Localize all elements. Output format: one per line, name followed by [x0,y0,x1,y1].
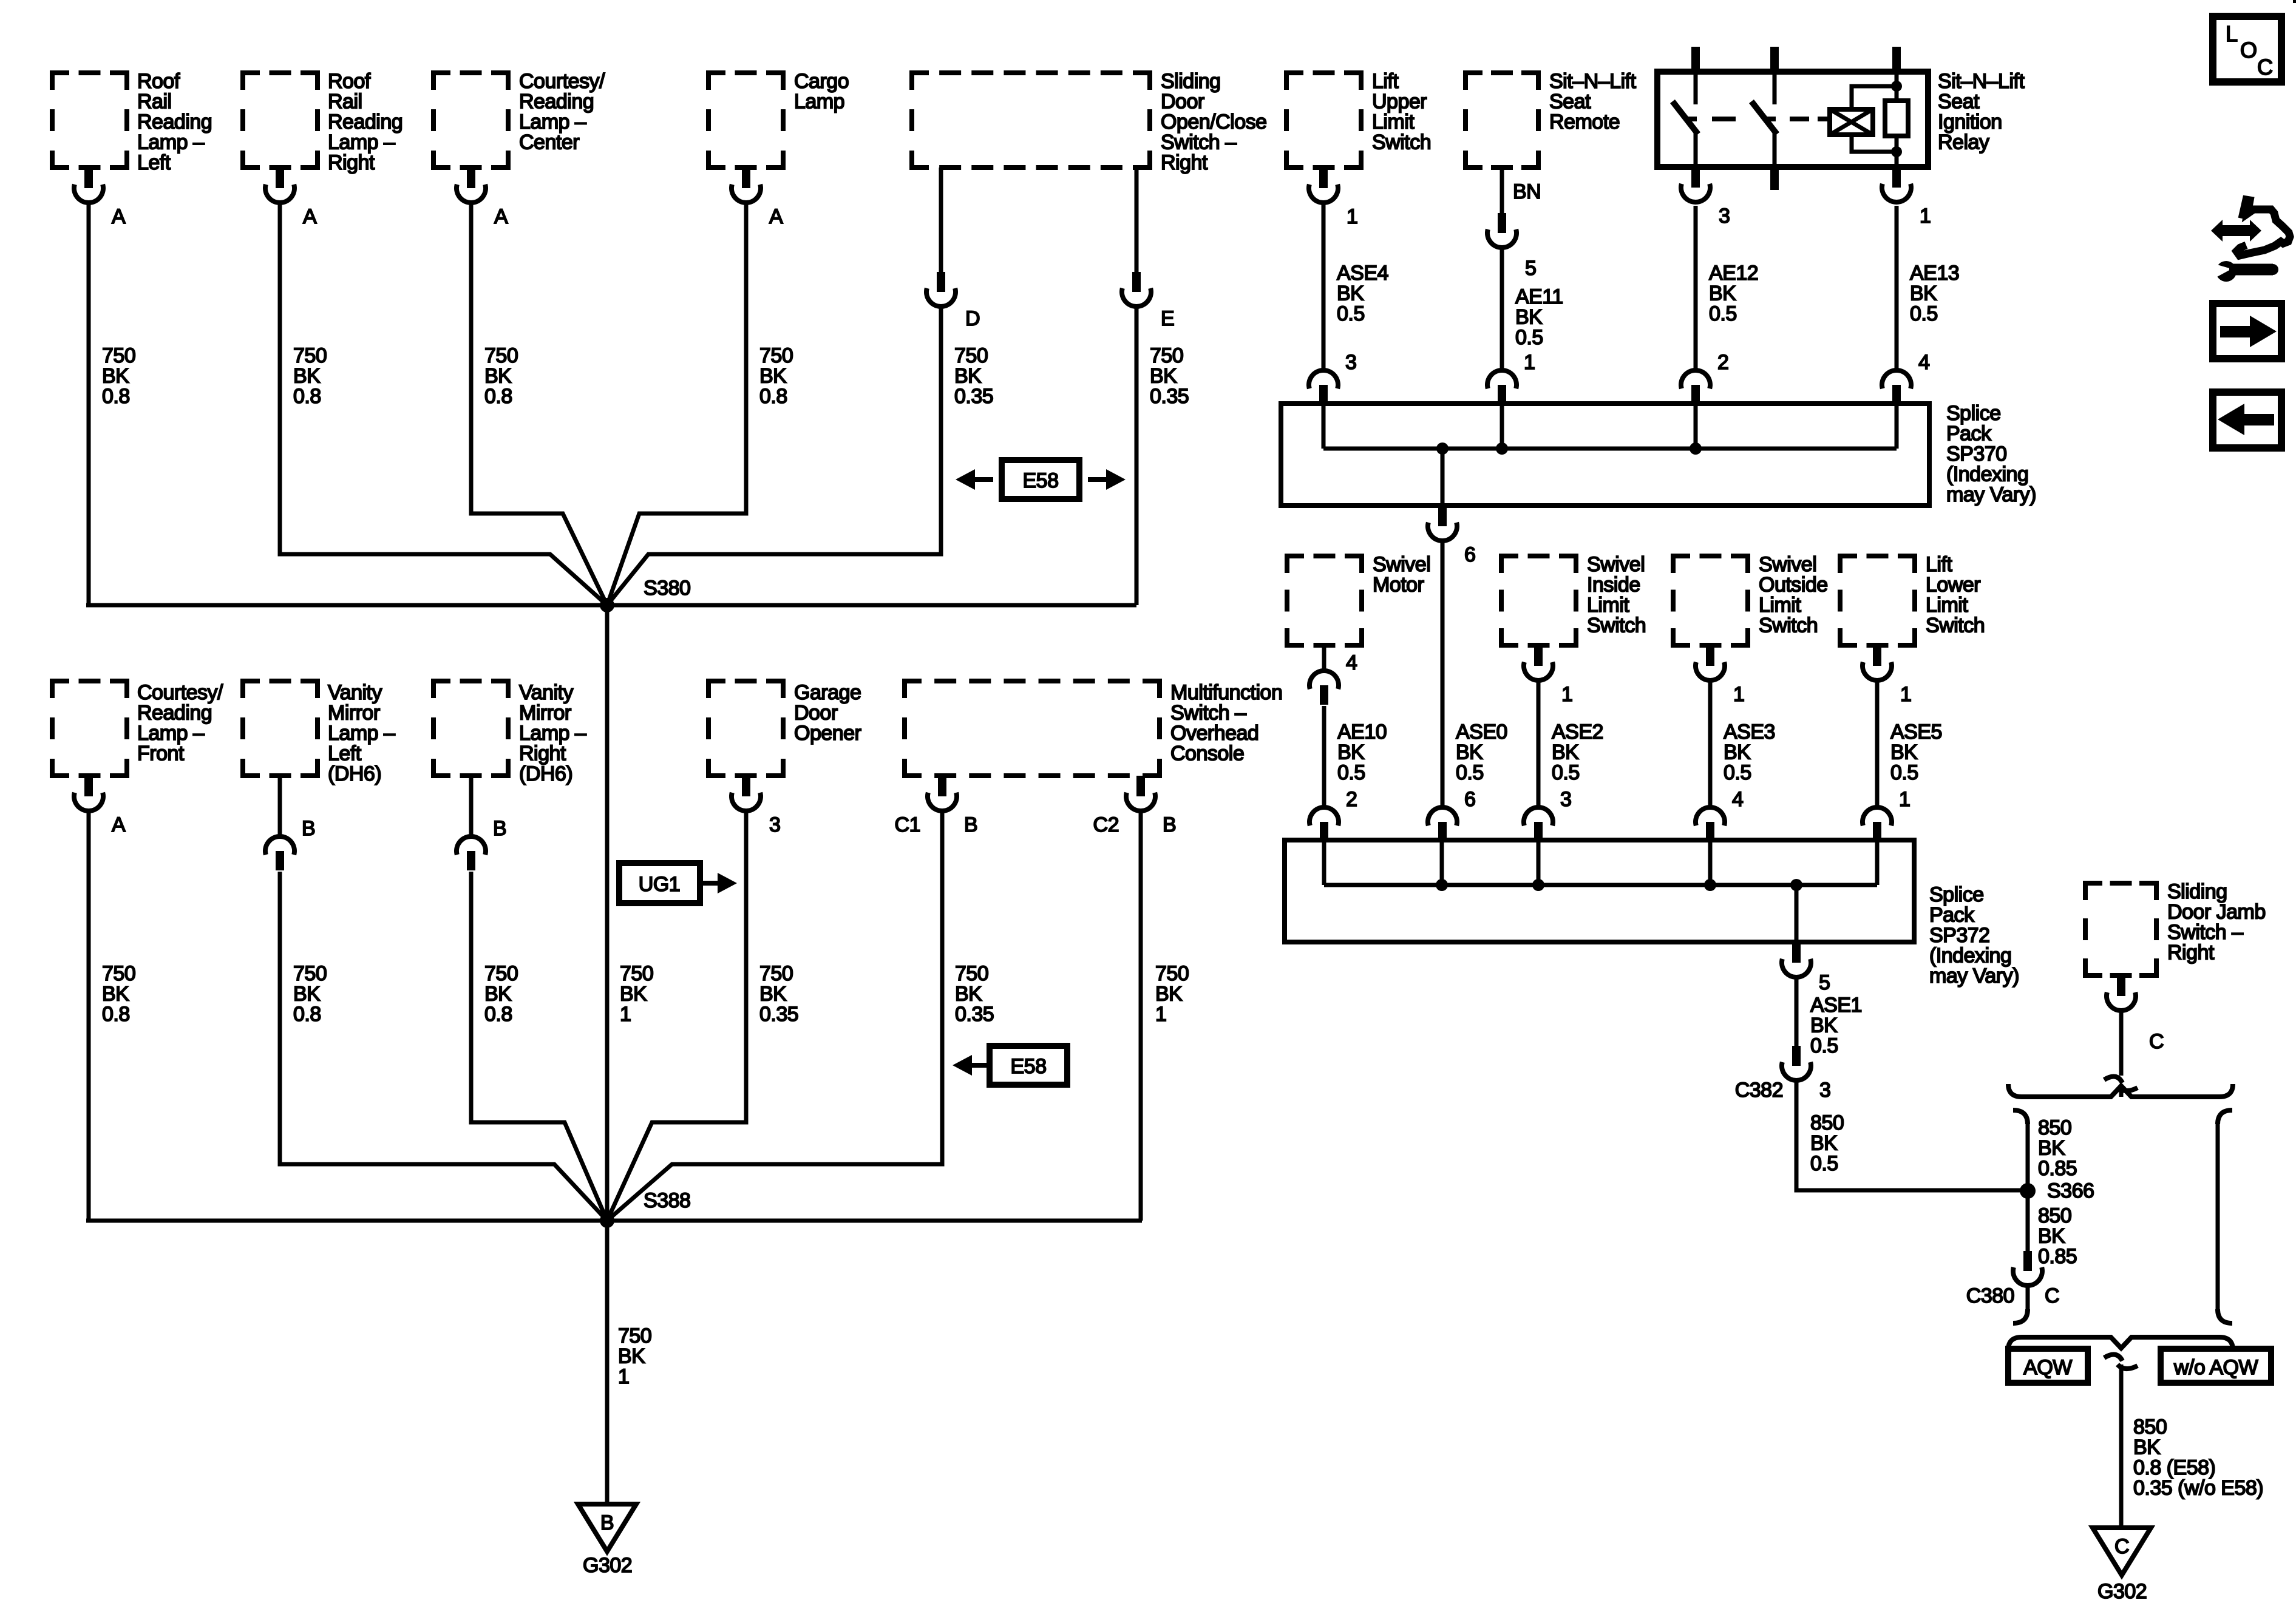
svg-text:G302: G302 [583,1554,632,1577]
option branch left hook bottom [2013,1309,2028,1323]
svg-text:0.8: 0.8 [484,1003,512,1026]
svg-text:Right: Right [519,742,566,765]
splice S380 [600,577,690,612]
option tag w/o AQW [2161,1349,2271,1383]
svg-text:BK: BK [2038,1137,2065,1160]
label: Vanity Mirror Lamp - Right (DH6) [519,681,586,785]
wire: S380 bus [86,603,1136,608]
wire: courtesy center down [471,203,607,605]
wire label 750 BK 0.35 (lead D) [954,344,993,408]
svg-text:B: B [302,817,315,840]
svg-text:Limit: Limit [1372,110,1415,134]
svg-text:Right: Right [1161,151,1208,174]
component box: Swivel Outside Limit Switch [1673,556,1748,645]
svg-text:3: 3 [1719,205,1730,228]
svg-text:1: 1 [618,1365,629,1388]
component box: Multifunction Switch - Overhead Console [905,681,1160,776]
component box: Courtesy/Reading Lamp - Front [52,681,127,776]
svg-text:0.8: 0.8 [759,385,787,408]
wire break symbol (jamb wire) [2104,1077,2138,1091]
label: Multifunction Switch - Overhead Console [1170,681,1282,765]
label: Courtesy/Reading Lamp - Center [519,70,605,154]
svg-text:850: 850 [2038,1204,2071,1227]
svg-text:3: 3 [1560,788,1571,811]
component box: Garage Door Opener [708,681,783,776]
svg-text:Right: Right [2167,941,2215,964]
svg-text:AQW: AQW [2023,1356,2072,1379]
svg-text:BK: BK [1910,282,1937,305]
svg-text:0.5: 0.5 [1810,1034,1838,1057]
svg-text:1: 1 [1733,683,1744,706]
svg-text:AE10: AE10 [1337,720,1387,744]
connector C382 inline [1735,1046,1831,1102]
relay top stub 3 [1892,47,1901,74]
wire: switch lead E upper [1135,168,1139,272]
icon: forward arrow box [2213,303,2281,359]
svg-text:Reading: Reading [328,110,402,134]
svg-text:Reading: Reading [519,90,594,114]
svg-text:1: 1 [1920,205,1931,228]
svg-text:850: 850 [2133,1415,2167,1439]
label: Sit-N-Lift Seat Remote [1549,70,1636,134]
connector pin 1 (swivel inside) [1524,645,1572,706]
svg-text:BK: BK [2133,1436,2161,1459]
svg-text:0.5: 0.5 [1890,761,1918,784]
connector B (vanity left, inverted) [265,817,315,870]
svg-text:Upper: Upper [1372,90,1427,114]
svg-text:0.8: 0.8 [484,385,512,408]
wire label ASE1 BK 0.5 [1810,994,1862,1057]
svg-text:SP370: SP370 [1946,442,2007,466]
connector BN inline [1487,213,1536,280]
svg-text:w/o AQW: w/o AQW [2173,1356,2258,1379]
relay switch 1 [1673,75,1698,164]
svg-text:C: C [2045,1284,2059,1307]
wire: ASE0 down [1441,541,1445,807]
svg-text:2: 2 [1717,351,1728,374]
label: Vanity Mirror Lamp - Left (DH6) [328,681,395,785]
connector C380 inline [1966,1251,2059,1307]
svg-text:Lamp –: Lamp – [137,722,205,745]
label: Cargo Lamp [794,70,849,114]
svg-text:0.8: 0.8 [102,385,130,408]
svg-text:750: 750 [759,962,793,985]
svg-text:BK: BK [1155,983,1183,1006]
label: Swivel Motor [1373,553,1430,597]
connector pin A (Cargo Lamp) [732,168,783,228]
svg-text:Mirror: Mirror [328,702,380,725]
svg-text:A: A [494,205,508,228]
svg-text:0.8: 0.8 [293,1003,321,1026]
relay mechanical link dashes [1712,117,1830,121]
svg-text:Roof: Roof [137,70,180,93]
svg-text:BK: BK [1515,306,1543,329]
svg-text:1: 1 [1155,1003,1166,1026]
svg-text:Sliding: Sliding [1161,70,1221,93]
svg-text:Splice: Splice [1929,883,1984,906]
svg-text:Door: Door [1161,90,1204,114]
option branch left wire upper [2026,1122,2030,1251]
component box: Lift Lower Limit Switch [1840,556,1915,645]
svg-text:G302: G302 [2097,1580,2147,1603]
connector pin 2 into SP372 [1309,788,1357,841]
svg-text:BK: BK [484,983,512,1006]
svg-text:750: 750 [620,962,653,985]
SP372 internal drop 1 [1322,840,1326,885]
SP372 internal drop 2 [1440,840,1444,885]
connector box E58 (upper, double arrow) [956,460,1126,499]
svg-text:0.35: 0.35 [1150,385,1189,408]
connector pin 3 (garage door opener) [732,776,780,836]
svg-text:UG1: UG1 [639,873,680,896]
wire: AE12 down [1694,206,1698,370]
connector pin A (Roof Rail Reading Lamp - Right) [265,168,317,228]
splice pack SP370 box [1281,404,1929,506]
wire: vanity right down [471,872,607,1221]
svg-text:0.85: 0.85 [2038,1245,2077,1268]
connector D inline [926,272,980,330]
relay coil top wire [1852,86,1897,109]
svg-text:C1: C1 [895,813,920,836]
svg-text:Front: Front [137,742,185,765]
svg-text:BK: BK [954,365,982,388]
svg-text:C382: C382 [1735,1079,1783,1102]
wire: AE13 down [1895,206,1899,370]
svg-text:Multifunction: Multifunction [1170,681,1282,704]
svg-text:0.35: 0.35 [955,1003,994,1026]
svg-text:ASE5: ASE5 [1890,720,1942,744]
relay resistor [1885,101,1908,136]
svg-text:Left: Left [328,742,362,765]
component box: Vanity Mirror Lamp - Right [433,681,508,776]
SP370 internal drop 2 [1500,404,1504,449]
wire: AE11 down [1500,248,1504,370]
svg-text:Center: Center [519,131,579,154]
connector pin 1 into SP372 [1863,788,1910,841]
relay coil bottom wire [1852,135,1897,152]
svg-text:4: 4 [1346,651,1357,674]
option branch right hook bottom [2218,1309,2232,1323]
svg-text:E58: E58 [1011,1055,1047,1078]
label: Sliding Door Jamb Switch - Right [2167,880,2266,964]
svg-text:Overhead: Overhead [1170,722,1258,745]
relay top stub 1 [1691,47,1700,74]
label: Lift Lower Limit Switch [1926,553,1985,637]
option brace top [2008,1084,2233,1097]
svg-text:A: A [769,205,783,228]
svg-text:Ignition: Ignition [1938,110,2002,134]
svg-text:(Indexing: (Indexing [1946,463,2028,486]
SP370 output pin 6 [1428,506,1475,566]
svg-text:Right: Right [328,151,375,174]
svg-text:may Vary): may Vary) [1929,964,2019,988]
svg-text:5: 5 [1525,257,1536,280]
splice S388 [600,1189,690,1228]
svg-text:Reading: Reading [137,110,212,134]
svg-text:Inside: Inside [1587,574,1640,597]
connector pin 1 (swivel outside) [1696,645,1744,706]
ground G302 left [578,1504,636,1577]
svg-text:S380: S380 [644,577,690,600]
svg-text:Switch –: Switch – [2167,921,2243,944]
svg-text:B: B [964,813,977,836]
svg-text:0.5: 0.5 [1910,302,1938,325]
relay bottom stub middle [1770,167,1779,190]
SP372 output drop [1795,885,1799,942]
svg-text:6: 6 [1464,543,1475,566]
connector pin 2 into SP370 [1681,351,1728,404]
svg-text:Seat: Seat [1938,90,1980,114]
svg-text:Switch: Switch [1926,614,1985,637]
wire: ASE3 down [1708,680,1713,807]
wire label 750 BK 0.8 (vanity left) [293,962,327,1026]
connector 4 (swivel motor, inverted) [1309,651,1357,705]
svg-text:S388: S388 [644,1189,690,1212]
relay junction dot bottom [1891,146,1902,157]
svg-text:0.5: 0.5 [1337,302,1365,325]
svg-text:Rail: Rail [328,90,362,114]
svg-text:BK: BK [1337,741,1365,764]
svg-text:Opener: Opener [794,722,861,745]
wire label ASE2 BK 0.5 [1552,720,1603,784]
wire label 750 BK 0.35 (lead E) [1150,344,1189,408]
svg-text:0.5: 0.5 [1337,761,1365,784]
wire: multifunction C2 down [1139,811,1143,1221]
wire: lead D down [607,307,941,605]
wire: vanity left down [280,872,607,1221]
svg-text:BK: BK [293,983,321,1006]
svg-text:Sliding: Sliding [2167,880,2227,903]
svg-text:Splice: Splice [1946,402,2001,425]
svg-text:BK: BK [1724,741,1751,764]
svg-text:B: B [1163,813,1176,836]
svg-text:Lower: Lower [1926,574,1980,597]
splice pack SP372 box [1285,840,1914,942]
svg-text:Switch: Switch [1372,131,1431,154]
svg-text:3: 3 [769,813,780,836]
label: Roof Rail Reading Lamp - Right [328,70,402,174]
svg-text:750: 750 [955,962,988,985]
svg-text:Cargo: Cargo [794,70,849,93]
SP370 internal bus [1323,447,1897,451]
wire: roof rail left down [87,203,91,605]
SP370 internal drop 4 [1895,404,1899,449]
wire: S388 bus [86,1219,1142,1223]
svg-text:750: 750 [102,962,135,985]
svg-text:Sit–N–Lift: Sit–N–Lift [1938,70,2025,93]
wire: AE10 down [1322,706,1326,807]
wire: garage opener down [607,811,746,1221]
component box: Sliding Door Open/Close Switch - Right [912,73,1150,168]
svg-text:750: 750 [618,1324,651,1347]
wire label 750 BK 0.8 (cargo) [759,344,793,408]
icon: panel outline [2237,200,2290,256]
svg-text:0.85: 0.85 [2038,1157,2077,1180]
SP372 internal bus [1324,883,1877,887]
svg-text:Lamp –: Lamp – [328,722,395,745]
svg-text:Console: Console [1170,742,1244,765]
svg-text:Rail: Rail [137,90,172,114]
wire: swivel motor lead [1322,645,1326,671]
ground G302 right [2093,1528,2151,1603]
wire: switch lead D upper [939,168,943,272]
wire label ASE4 BK 0.5 [1337,262,1388,325]
wire label AE10 BK 0.5 [1337,720,1387,784]
relay coil [1830,109,1873,135]
wire label AE12 BK 0.5 [1709,262,1758,325]
svg-text:0.5: 0.5 [1810,1152,1838,1175]
wire label AE13 BK 0.5 [1910,262,1959,325]
svg-text:Left: Left [137,151,171,174]
relay junction dot top [1891,81,1902,92]
svg-text:750: 750 [102,344,135,367]
svg-text:0.5: 0.5 [1552,761,1580,784]
svg-text:Garage: Garage [794,681,861,704]
svg-text:750: 750 [484,962,518,985]
svg-text:Relay: Relay [1938,131,1989,154]
svg-text:750: 750 [484,344,518,367]
svg-text:(DH6): (DH6) [519,762,572,785]
wire: cargo down [607,203,746,605]
svg-text:Remote: Remote [1549,110,1620,134]
wire label 850 BK 0.5 [1810,1111,1844,1175]
svg-text:BK: BK [1337,282,1364,305]
svg-text:Reading: Reading [137,702,212,725]
svg-text:Door Jamb: Door Jamb [2167,901,2266,924]
connector pin 4 into SP372 [1696,788,1743,841]
svg-text:A: A [112,205,126,228]
svg-text:Switch: Switch [1587,614,1646,637]
svg-text:850: 850 [2038,1116,2071,1139]
connector pin A (Roof Rail Reading Lamp - Left) [74,168,126,228]
svg-text:BK: BK [1810,1014,1838,1037]
svg-text:1: 1 [620,1003,631,1026]
svg-text:0.35: 0.35 [759,1003,798,1026]
label: Splice Pack SP370 [1946,402,2036,506]
connector B (vanity right, inverted) [457,817,506,870]
svg-text:1: 1 [1899,788,1910,811]
label: Splice Pack SP372 [1929,883,2019,988]
svg-text:Swivel: Swivel [1587,553,1645,576]
SP372 bus dot b [1532,879,1544,891]
wire label 750 BK 0.8 (courtesy front) [102,962,135,1026]
connector pin 1 (Lift Upper Limit Switch) [1309,168,1357,228]
svg-text:Roof: Roof [328,70,371,93]
splice S366 [2020,1179,2094,1202]
svg-text:4: 4 [1732,788,1743,811]
SP372 internal drop 4 [1708,840,1713,885]
SP372 output pin 5 [1782,942,1830,994]
component box: Roof Rail Reading Lamp - Left [52,73,127,168]
wire: ASE4 down [1322,203,1326,370]
component box: Lift Upper Limit Switch [1286,73,1361,168]
SP372 bus dot d [1790,879,1802,891]
connector pin A (courtesy front) [74,776,126,836]
wire label AE11 BK 0.5 [1515,285,1563,349]
connector pin 3 into SP372 [1524,788,1571,841]
wire label 750 BK 1 (C2) [1155,962,1189,1026]
svg-text:BK: BK [293,365,321,388]
svg-text:SP372: SP372 [1929,924,1990,947]
svg-text:BK: BK [955,983,982,1006]
connector box E58 (lower, left arrow) [953,1046,1067,1085]
svg-text:750: 750 [1150,344,1183,367]
relay bottom pin 3 [1681,167,1730,228]
component box: Roof Rail Reading Lamp - Right [243,73,318,168]
svg-text:A: A [303,205,317,228]
option brace bottom [2008,1337,2233,1350]
svg-text:BK: BK [759,983,787,1006]
svg-text:may Vary): may Vary) [1946,483,2036,506]
svg-text:BK: BK [102,983,129,1006]
svg-text:ASE3: ASE3 [1724,720,1775,744]
label: Sit-N-Lift Seat Ignition Relay [1938,70,2025,154]
svg-text:L: L [2226,21,2238,46]
wire: multifunction C1 down [607,811,942,1221]
svg-text:BK: BK [1709,282,1736,305]
label: Garage Door Opener [794,681,861,745]
svg-text:750: 750 [759,344,793,367]
svg-text:Courtesy/: Courtesy/ [137,681,223,704]
svg-text:750: 750 [293,962,327,985]
svg-text:B: B [600,1511,614,1534]
option branch left hook top [2013,1110,2028,1124]
label: Swivel Outside Limit Switch [1759,553,1828,637]
svg-text:750: 750 [954,344,988,367]
svg-text:BK: BK [484,365,512,388]
svg-text:0.35: 0.35 [954,385,993,408]
wire label 750 BK 1 (ground) [618,1324,651,1388]
svg-text:Switch –: Switch – [1161,131,1237,154]
wire break symbol (output) [2104,1355,2138,1369]
svg-text:Switch –: Switch – [1170,702,1246,725]
svg-text:750: 750 [293,344,327,367]
svg-text:Vanity: Vanity [519,681,573,704]
relay top stub 2 [1770,47,1779,74]
svg-text:BK: BK [620,983,647,1006]
svg-text:Pack: Pack [1929,904,1975,927]
svg-text:C: C [2149,1030,2164,1053]
svg-text:Courtesy/: Courtesy/ [519,70,605,93]
svg-text:D: D [965,307,980,330]
component box: Vanity Mirror Lamp - Left [243,681,318,776]
label: Sliding Door Open/Close Switch - Right [1161,70,1267,174]
svg-text:1: 1 [1347,205,1357,228]
component box: Cargo Lamp [708,73,783,168]
svg-text:Vanity: Vanity [328,681,382,704]
svg-text:Limit: Limit [1759,594,1801,617]
svg-text:BK: BK [759,365,787,388]
relay resistor branch wire [1895,75,1899,164]
connector pin C (jamb switch) [2107,975,2164,1053]
svg-text:AE13: AE13 [1910,262,1959,285]
svg-text:Sit–N–Lift: Sit–N–Lift [1549,70,1636,93]
wire label ASE5 BK 0.5 [1890,720,1942,784]
svg-text:0.8: 0.8 [102,1003,130,1026]
svg-text:Lamp –: Lamp – [137,131,205,154]
connector pin A (Courtesy/Reading Lamp - Center) [457,168,508,228]
svg-text:ASE4: ASE4 [1337,262,1388,285]
svg-text:E: E [1161,307,1174,330]
svg-text:(DH6): (DH6) [328,762,381,785]
SP370 bus dot a [1436,442,1449,455]
label: Courtesy/Reading Lamp - Front [137,681,223,765]
svg-text:Open/Close: Open/Close [1161,110,1267,134]
svg-text:0.35 (w/o E58): 0.35 (w/o E58) [2133,1477,2263,1500]
component box: Sliding Door Jamb Switch - Right [2085,883,2156,975]
svg-text:C: C [2114,1535,2129,1558]
connector box UG1 with arrow [619,863,737,903]
